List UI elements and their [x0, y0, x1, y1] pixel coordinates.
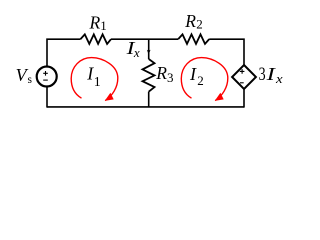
svg-text:2: 2 [196, 17, 203, 32]
resistor R2 [178, 34, 209, 44]
wire top-middle segment [111, 38, 178, 40]
svg-text:R: R [89, 13, 101, 33]
svg-text:1: 1 [94, 75, 101, 90]
wire top-right segment [209, 39, 244, 65]
svg-text:1: 1 [100, 18, 107, 33]
mesh arrow head I2 [215, 93, 224, 101]
svg-text:x: x [133, 45, 140, 60]
diamond minus sign [240, 82, 244, 84]
wire middle branch lower [148, 92, 150, 107]
svg-text:I: I [265, 64, 276, 84]
svg-text:3: 3 [167, 70, 174, 85]
svg-text:x: x [275, 71, 283, 86]
Vs minus sign [43, 79, 48, 81]
svg-text:3: 3 [259, 65, 266, 85]
wire left lower segment [46, 87, 48, 108]
dependent source diamond [232, 65, 256, 89]
wire right lower segment [243, 89, 245, 107]
voltage source Vs circle [37, 67, 57, 87]
resistor R1 [81, 34, 112, 44]
wire bottom segment [47, 106, 244, 108]
svg-text:R: R [184, 11, 196, 31]
diamond plus sign [240, 69, 245, 74]
resistor R3 [143, 59, 155, 92]
mesh arrow head I1 [105, 93, 114, 101]
current arrow Ix [147, 50, 151, 55]
Vs plus sign [43, 71, 48, 76]
wire middle branch upper [148, 39, 150, 59]
svg-text:s: s [28, 74, 33, 86]
mesh current loop I2 [181, 58, 228, 101]
svg-text:I: I [189, 64, 197, 84]
wire top-left segment [47, 39, 81, 66]
svg-text:R: R [155, 63, 167, 83]
mesh current loop I1 [71, 58, 118, 101]
svg-text:2: 2 [197, 73, 204, 88]
